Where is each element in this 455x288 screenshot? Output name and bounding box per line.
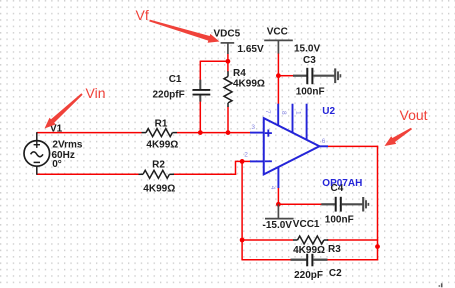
svg-text:1: 1 [295, 111, 302, 115]
svg-text:-15.0V: -15.0V [263, 220, 293, 231]
svg-text:100nF: 100nF [296, 86, 325, 97]
svg-text:7: 7 [264, 110, 271, 114]
svg-text:U2: U2 [322, 106, 335, 117]
svg-text:VDC5: VDC5 [214, 28, 241, 39]
svg-text:6: 6 [322, 138, 326, 145]
svg-text:C2: C2 [329, 268, 342, 279]
svg-text:220pfF: 220pfF [153, 89, 185, 100]
svg-text:220pF: 220pF [294, 270, 323, 281]
svg-text:R2: R2 [152, 159, 165, 170]
svg-text:Vout: Vout [400, 107, 428, 123]
svg-text:3: 3 [251, 124, 255, 131]
svg-text:4: 4 [269, 186, 276, 190]
svg-text:R3: R3 [328, 244, 341, 255]
svg-text:C3: C3 [303, 55, 316, 66]
svg-text:100nF: 100nF [325, 214, 354, 225]
svg-text:Vf: Vf [136, 7, 149, 23]
svg-text:4K99Ω: 4K99Ω [146, 140, 178, 151]
svg-text:8: 8 [280, 111, 287, 115]
svg-text:2Vrms: 2Vrms [52, 139, 82, 150]
svg-text:VCC: VCC [267, 27, 288, 38]
svg-text:4K99Ω: 4K99Ω [143, 184, 175, 195]
svg-text:C1: C1 [169, 74, 182, 85]
svg-text:0°: 0° [52, 159, 62, 170]
svg-text:2: 2 [244, 151, 248, 158]
svg-text:15.0V: 15.0V [294, 43, 320, 54]
svg-text:R1: R1 [155, 118, 168, 129]
svg-text:4K99Ω: 4K99Ω [233, 78, 265, 89]
svg-text:OP07AH: OP07AH [322, 178, 362, 189]
svg-text:4K99Ω: 4K99Ω [293, 245, 325, 256]
svg-text:1.65V: 1.65V [238, 44, 264, 55]
svg-text:VCC1: VCC1 [293, 219, 320, 230]
svg-text:Vin: Vin [86, 85, 106, 101]
